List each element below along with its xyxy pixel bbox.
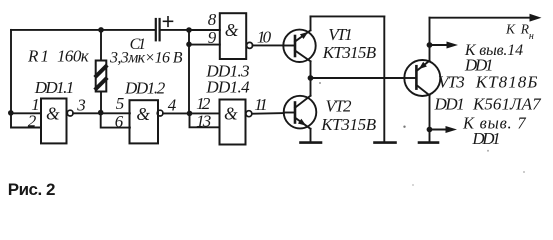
svg-text:8: 8 — [208, 10, 217, 29]
svg-text:DD1: DD1 — [464, 56, 494, 75]
svg-text:160к: 160к — [57, 46, 90, 65]
svg-text:Рис. 2: Рис. 2 — [8, 180, 56, 199]
svg-text:VT2: VT2 — [326, 96, 353, 115]
node R1 top junction dot — [98, 27, 104, 33]
wire input 1 of DD1.1 — [11, 112, 41, 114]
svg-text:2: 2 — [28, 111, 37, 130]
wire top-left horizontal — [11, 29, 155, 31]
gate DD1.3 box — [220, 13, 246, 59]
gate DD1.1 box — [41, 99, 67, 144]
gate DD1.4 box — [220, 100, 246, 145]
wire left vertical — [10, 30, 12, 113]
speck 3 — [487, 150, 489, 152]
svg-text:DD1.4: DD1.4 — [205, 78, 250, 97]
ground VT3 — [419, 141, 438, 144]
wire input 8 of DD1.3 — [189, 29, 220, 31]
node G junction dot — [427, 127, 433, 133]
output bubble DD1.3 — [247, 42, 253, 48]
transistor VT1 — [283, 30, 315, 62]
wire VT2 emitter to ground — [310, 129, 312, 142]
wire output 11 — [252, 112, 284, 115]
node E junction dot — [308, 75, 314, 81]
svg-text:VT1: VT1 — [328, 25, 353, 44]
arrow k vyv 14 — [430, 44, 450, 46]
transistor VT2 — [284, 96, 317, 129]
svg-text:&: & — [225, 20, 239, 40]
node D junction dot — [98, 110, 104, 116]
speck 4 — [523, 171, 525, 173]
svg-text:13: 13 — [196, 112, 211, 131]
svg-text:н: н — [529, 31, 534, 42]
svg-text:6: 6 — [115, 112, 124, 131]
svg-text:К: К — [505, 21, 516, 36]
speck 5 — [412, 184, 414, 186]
transistor VT3 — [404, 60, 440, 96]
wire middle vertical to ground — [383, 16, 385, 141]
output bubble DD1.2 — [157, 110, 163, 116]
output bubble DD1.4 — [246, 111, 252, 117]
svg-text:DD1: DD1 — [471, 129, 500, 148]
svg-text:3: 3 — [76, 96, 86, 115]
wire output 4 — [163, 112, 190, 114]
speck 1 — [319, 82, 321, 84]
wire vertical node B to node C — [188, 44, 190, 113]
wire input 9 of DD1.3 — [189, 44, 220, 46]
svg-text:&: & — [46, 104, 60, 124]
svg-text:5: 5 — [116, 94, 125, 113]
arrow k vyv 7 — [430, 129, 449, 131]
node A junction dot left — [8, 110, 14, 116]
svg-text:КТ315В: КТ315В — [322, 43, 377, 62]
svg-text:3,3мк×16 В: 3,3мк×16 В — [109, 50, 183, 67]
wire output 3 — [73, 112, 101, 114]
node B junction dot — [186, 27, 192, 33]
capacitor C1 — [155, 19, 157, 40]
node C junction dot — [187, 111, 193, 117]
svg-text:DD1: DD1 — [434, 95, 465, 114]
wire C1 right to node B — [161, 29, 189, 31]
wire VT1 emitter up — [310, 16, 312, 30]
svg-text:11: 11 — [254, 95, 267, 114]
svg-text:DD1.2: DD1.2 — [124, 78, 166, 97]
wire input 13 of DD1.4 — [190, 113, 220, 127]
wire VT3 collector down — [429, 95, 431, 142]
ground VT2 — [301, 141, 322, 144]
svg-text:КТ818Б: КТ818Б — [475, 73, 538, 92]
svg-text:10: 10 — [257, 28, 272, 47]
wire top right rail — [430, 17, 537, 19]
speck 2 — [403, 126, 405, 128]
wire top rail — [311, 15, 385, 17]
svg-text:R1: R1 — [27, 46, 49, 65]
svg-text:КТ315В: КТ315В — [320, 115, 377, 134]
svg-text:12: 12 — [196, 94, 211, 113]
wire VT1 collector down — [310, 61, 312, 95]
output bubble DD1.1 — [67, 110, 73, 116]
wire output 10 — [253, 44, 284, 46]
wire input 2 of DD1.1 — [11, 113, 41, 127]
svg-text:&: & — [224, 104, 238, 124]
wire VT3 emitter up — [429, 18, 431, 61]
svg-text:К561ЛА7: К561ЛА7 — [472, 95, 542, 114]
wire input 6 of DD1.2 — [101, 113, 130, 127]
svg-text:4: 4 — [168, 96, 177, 115]
wire node B down — [188, 30, 190, 44]
arrow to Rn — [530, 14, 542, 22]
resistor R1 — [100, 30, 102, 61]
svg-text:9: 9 — [208, 28, 217, 47]
svg-text:&: & — [136, 104, 150, 124]
wire input 5 of DD1.2 — [101, 112, 130, 114]
svg-text:VT3: VT3 — [438, 73, 465, 92]
ground middle — [375, 141, 396, 144]
node input 9 junction dot — [186, 42, 192, 48]
node F junction dot — [427, 42, 433, 48]
wire input 12 of DD1.4 — [190, 112, 220, 114]
gate DD1.2 box — [130, 100, 159, 143]
wire node E to VT3 base — [311, 77, 405, 79]
